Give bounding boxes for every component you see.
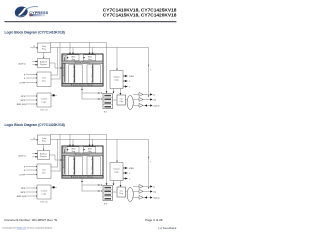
cypress logo swirl xyxy=(14,5,38,19)
svg-text:Logic Block Diagram (CY7C1420K: Logic Block Diagram (CY7C1420KV18) xyxy=(5,123,65,127)
header rule xyxy=(5,21,177,22)
diagram 1 xyxy=(17,43,160,114)
diagram 2 xyxy=(17,135,160,206)
svg-text:PERFORM: PERFORM xyxy=(33,15,44,17)
perform tagline xyxy=(29,14,45,16)
svg-text:Page 3 of 28: Page 3 of 28 xyxy=(145,218,163,222)
svg-text:Downloaded from Elcodis.com el: Downloaded from Elcodis.com electronic c… xyxy=(3,227,53,230)
svg-text:[+] Feedback: [+] Feedback xyxy=(158,226,176,230)
svg-text:CY7C1410KV18, CY7C1425KV18: CY7C1410KV18, CY7C1425KV18 xyxy=(103,7,177,13)
svg-text:Logic Block Diagram (CY7C1410K: Logic Block Diagram (CY7C1410KV18) xyxy=(5,31,65,35)
svg-text:Document Number: 001-06527 Rev: Document Number: 001-06527 Rev. *E xyxy=(5,218,58,222)
svg-text:CY7C1415KV18, CY7C1420KV18: CY7C1415KV18, CY7C1420KV18 xyxy=(103,13,177,19)
